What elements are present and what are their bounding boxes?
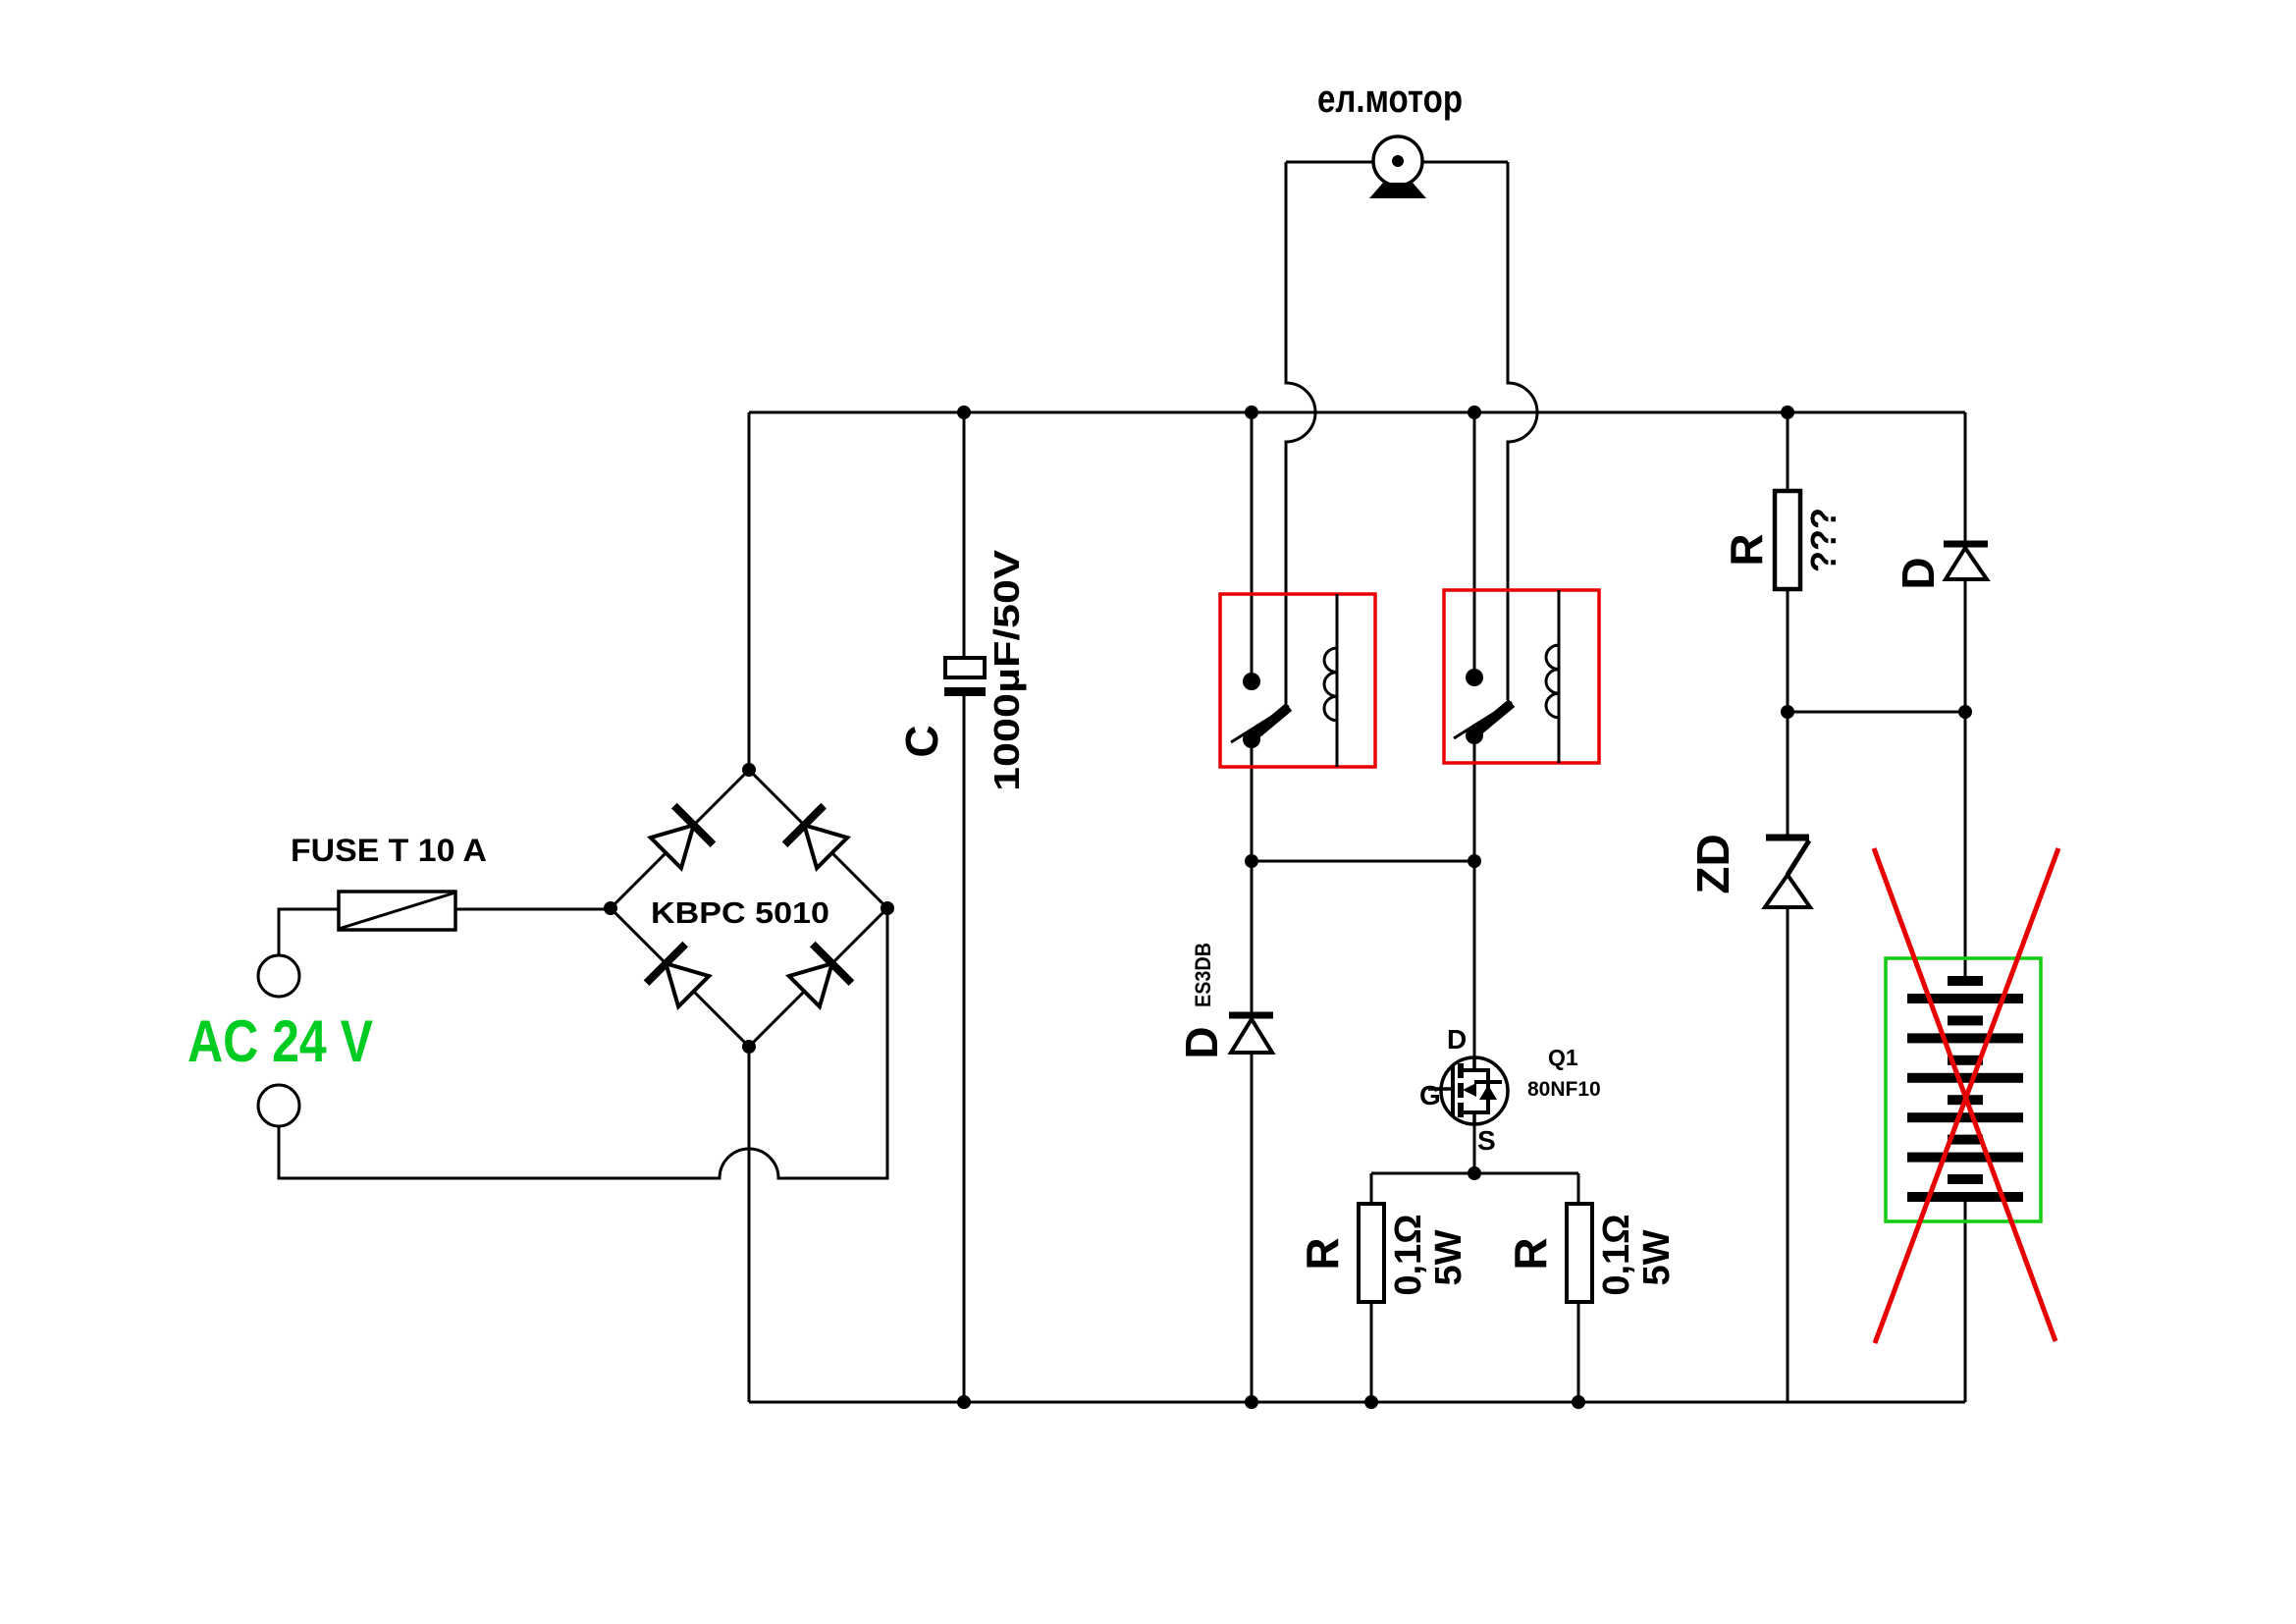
resistor R left body xyxy=(1359,1204,1384,1302)
svg-text:S: S xyxy=(1477,1125,1496,1156)
wire capacitor branch bottom xyxy=(963,696,966,1402)
svg-text:D: D xyxy=(1176,1026,1227,1058)
svg-text:D: D xyxy=(1447,1024,1467,1055)
battery cell 4 positive plate xyxy=(1948,1095,1983,1105)
svg-text:R: R xyxy=(1297,1237,1348,1270)
relay 2 coil xyxy=(1546,590,1559,763)
node top bus / capacitor branch xyxy=(957,406,971,419)
svg-text:KBPC 5010: KBPC 5010 xyxy=(651,895,829,930)
wire resistor R left leads xyxy=(1370,1173,1373,1402)
battery cell 3 negative plate xyxy=(1907,1073,2023,1083)
wire bridge bottom to bottom bus xyxy=(748,1047,751,1402)
relay 2 lever xyxy=(1454,702,1512,738)
motor symbol xyxy=(1373,136,1422,186)
wire diode D branch leads xyxy=(1964,412,1967,712)
relay 1 coil xyxy=(1324,594,1337,767)
svg-text:G: G xyxy=(1419,1080,1441,1110)
wire capacitor branch top xyxy=(963,412,966,658)
battery cell 6 positive plate xyxy=(1948,1174,1983,1184)
battery green box xyxy=(1886,958,2041,1221)
relay 1 red box xyxy=(1220,594,1375,767)
node top bus / relay1 contact feed xyxy=(1245,406,1258,419)
node R??? bottom / junction row xyxy=(1781,705,1794,719)
relay 2 red box xyxy=(1444,590,1599,763)
svg-text:0,1Ω: 0,1Ω xyxy=(1596,1214,1637,1295)
battery cell 1 positive plate xyxy=(1948,976,1983,986)
svg-text:ES3DB: ES3DB xyxy=(1191,943,1215,1007)
wire relay2 contact feed xyxy=(1473,412,1476,674)
svg-text:80NF10: 80NF10 xyxy=(1527,1078,1601,1101)
wire AC hot: terminal to fuse to bridge left xyxy=(279,909,611,955)
wire bridge diamond sides xyxy=(611,770,887,1047)
wire motor right leg with hop over bus xyxy=(1508,162,1537,700)
bridge diode lower-left xyxy=(647,945,714,1011)
resistor R ??? body xyxy=(1775,491,1800,589)
node bridge top corner xyxy=(742,763,756,777)
wire top bus xyxy=(749,411,1965,414)
wire battery leads xyxy=(1964,712,1967,1402)
bridge diode upper-left xyxy=(647,806,714,873)
node bridge bottom corner xyxy=(742,1040,756,1054)
battery cell 4 negative plate xyxy=(1907,1112,2023,1122)
wire R??? branch leads xyxy=(1787,412,1789,712)
zener diode ZD xyxy=(1766,835,1809,841)
node bridge left corner xyxy=(604,901,617,915)
fuse FUSE T 10 A xyxy=(339,892,455,930)
wire motor top left xyxy=(1286,161,1373,164)
node top bus / relay2 contact feed xyxy=(1468,406,1481,419)
svg-text:ел.мотор: ел.мотор xyxy=(1317,78,1463,121)
terminal AC upper xyxy=(258,955,299,997)
capacitor C plates xyxy=(945,658,985,677)
diode D right xyxy=(1944,541,1988,548)
node mosfet source / resistor header xyxy=(1468,1166,1481,1180)
relay 1 contact dot xyxy=(1243,673,1260,690)
battery cell 2 negative plate xyxy=(1907,1033,2023,1043)
wire bottom bus xyxy=(749,1401,1965,1404)
wire motor left leg with hop over bus xyxy=(1286,162,1315,706)
svg-text:AC 24 V: AC 24 V xyxy=(187,1008,373,1074)
svg-text:R: R xyxy=(1505,1237,1556,1270)
bridge diode upper-right xyxy=(785,806,852,873)
terminal AC lower xyxy=(258,1085,299,1126)
wire AC return with hop over bridge-bottom wire xyxy=(279,908,887,1178)
node bottom bus / resistor R left xyxy=(1364,1395,1378,1409)
resistor R right body xyxy=(1567,1204,1592,1302)
node relay2 armature / crossbar xyxy=(1468,854,1481,868)
wire relay1 armature down + crossbar at y877 xyxy=(1252,739,1474,1012)
node diode D bottom / junction row xyxy=(1958,705,1972,719)
battery cell 5 negative plate xyxy=(1907,1153,2023,1163)
transistor Q1 80NF10 xyxy=(1428,1057,1508,1124)
battery cell 6 negative plate xyxy=(1907,1192,2023,1202)
battery red X stroke 2 xyxy=(1875,848,2058,1343)
wire resistor R right leads xyxy=(1577,1173,1580,1402)
battery red X stroke 1 xyxy=(1874,848,2056,1341)
svg-text:Q1: Q1 xyxy=(1548,1045,1578,1070)
svg-text:0,1Ω: 0,1Ω xyxy=(1388,1214,1429,1295)
svg-text:ZD: ZD xyxy=(1687,834,1738,893)
wire zener branch to bottom bus xyxy=(1787,712,1789,1402)
node bottom bus / diode ES3DB branch xyxy=(1245,1395,1258,1409)
relay 1 lever xyxy=(1231,706,1289,742)
node bridge right corner xyxy=(881,901,894,915)
node top bus / R??? branch xyxy=(1781,406,1794,419)
svg-text:FUSE T 10 A: FUSE T 10 A xyxy=(291,833,487,868)
wire diode ES3DB to bottom bus xyxy=(1251,1053,1254,1402)
node relay1 armature / crossbar xyxy=(1245,854,1258,868)
diode D ES3DB xyxy=(1229,1012,1273,1019)
svg-text:D: D xyxy=(1893,557,1944,589)
node bottom bus / capacitor branch xyxy=(957,1395,971,1409)
wire relay1 contact feed xyxy=(1251,412,1254,677)
svg-text:???: ??? xyxy=(1803,508,1843,572)
relay 2 contact dot xyxy=(1466,669,1483,686)
wire left vertical bus-to-bridge-top xyxy=(748,412,751,770)
battery cell 5 positive plate xyxy=(1948,1135,1983,1145)
svg-text:5W: 5W xyxy=(1636,1229,1678,1285)
battery cell 2 positive plate xyxy=(1948,1015,1983,1025)
wire relay2 armature down to mosfet drain xyxy=(1473,735,1476,1057)
svg-text:1000µF/50V: 1000µF/50V xyxy=(987,550,1027,791)
svg-text:5W: 5W xyxy=(1428,1229,1469,1285)
wire motor top right xyxy=(1422,161,1508,164)
wire junction row y725 xyxy=(1788,711,1965,714)
svg-text:R: R xyxy=(1721,533,1772,566)
battery cell 1 negative plate xyxy=(1907,994,2023,1003)
bridge diode lower-right xyxy=(785,945,852,1011)
wire mosfet source down xyxy=(1473,1124,1476,1173)
battery cell 3 positive plate xyxy=(1948,1056,1983,1065)
wire resistor header xyxy=(1371,1172,1578,1175)
node bottom bus / resistor R right xyxy=(1572,1395,1585,1409)
svg-text:C: C xyxy=(896,725,947,757)
